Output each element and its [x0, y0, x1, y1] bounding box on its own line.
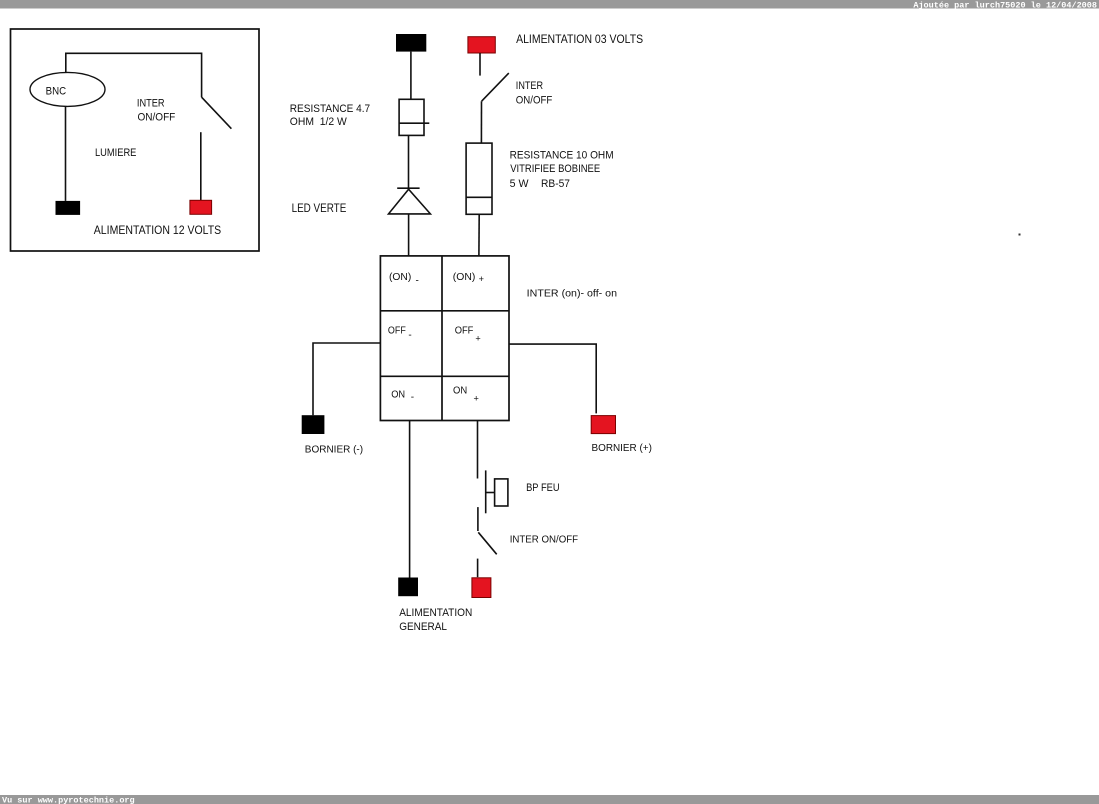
svg-text:OFF: OFF: [455, 325, 474, 336]
svg-text:5 W: 5 W: [510, 178, 529, 190]
svg-text:GENERAL: GENERAL: [399, 621, 447, 633]
svg-text:(ON): (ON): [389, 272, 411, 283]
svg-text:+: +: [474, 393, 479, 403]
footer bar: [0, 795, 1099, 804]
stray dot artifact: [1019, 234, 1021, 236]
svg-text:+: +: [475, 334, 480, 344]
wire resistor R2 to switch box: [478, 214, 480, 256]
LED cathode bar: [397, 187, 419, 189]
wire black terminal to resistor R1: [410, 52, 412, 100]
svg-text:Ajoutée par lurch75020 le 12/0: Ajoutée par lurch75020 le 12/04/2008: [913, 0, 1097, 10]
svg-text:ON: ON: [453, 385, 467, 396]
svg-text:ON/OFF: ON/OFF: [516, 94, 553, 106]
svg-text:INTER: INTER: [137, 98, 165, 110]
svg-text:RESISTANCE 4.7: RESISTANCE 4.7: [290, 103, 370, 115]
resistor R1 inner line: [399, 122, 429, 124]
svg-text:-: -: [416, 276, 419, 287]
wire inset right vertical to 12V terminal: [200, 132, 202, 200]
svg-text:ALIMENTATION 03 VOLTS: ALIMENTATION 03 VOLTS: [516, 34, 643, 46]
switch block divider vertical: [441, 256, 443, 421]
inter on/off switch blade (top right): [482, 73, 509, 101]
wire red terminal down: [479, 53, 481, 76]
svg-text:(ON): (ON): [453, 272, 476, 283]
terminal red 12V (inset): [190, 200, 212, 214]
svg-text:VITRIFIEE BOBINEE: VITRIFIEE BOBINEE: [510, 163, 600, 175]
switch block divider horizontal 1: [380, 310, 509, 312]
svg-text:ON/OFF: ON/OFF: [138, 112, 176, 124]
terminal black top: [396, 34, 426, 52]
wire switch to resistor R2: [480, 101, 482, 143]
svg-text:ALIMENTATION 12 VOLTS: ALIMENTATION 12 VOLTS: [94, 225, 222, 237]
resistor R2 10 ohm body: [466, 143, 492, 214]
switch block divider horizontal 2: [380, 375, 509, 377]
svg-text:RB-57: RB-57: [541, 178, 570, 190]
BP FEU button body: [495, 479, 508, 506]
svg-text:-: -: [408, 330, 411, 341]
svg-text:ON: ON: [391, 390, 405, 401]
switch block S1 outer frame: [380, 256, 509, 421]
svg-text:BORNIER (-): BORNIER (-): [305, 443, 363, 455]
BNC connector ellipse: [30, 72, 105, 106]
svg-text:ALIMENTATION: ALIMENTATION: [399, 607, 472, 619]
inter on/off switch blade (bottom): [478, 532, 496, 554]
terminal red top (03 volts): [468, 37, 495, 53]
svg-text:BNC: BNC: [46, 86, 67, 98]
wire inter switch to red terminal: [477, 559, 479, 578]
wire inset top horizontal: [66, 53, 202, 97]
inter on/off switch blade (inset): [202, 97, 232, 129]
wire OFF- to bornier minus: [313, 343, 380, 415]
svg-text:+: +: [479, 274, 484, 284]
terminal black alimentation general: [398, 578, 418, 597]
wire OFF+ to bornier plus: [509, 344, 596, 413]
wire BP FEU to inter switch: [477, 507, 479, 531]
BP FEU connector tick: [486, 492, 495, 494]
svg-text:INTER (on)- off- on: INTER (on)- off- on: [527, 289, 618, 300]
resistor R1 4.7 ohm body: [399, 99, 424, 135]
svg-text:LUMIERE: LUMIERE: [95, 147, 136, 159]
svg-text:LED VERTE: LED VERTE: [292, 203, 347, 215]
svg-text:OFF: OFF: [388, 325, 406, 336]
terminal red alimentation general: [472, 578, 491, 598]
wire BNC to black terminal: [65, 106, 67, 201]
inset box frame: [11, 29, 260, 251]
svg-text:OHM 1/2 W: OHM 1/2 W: [290, 116, 347, 128]
LED triangle: [389, 189, 431, 214]
svg-text:INTER: INTER: [516, 80, 543, 92]
svg-text:Vu sur www.pyrotechnie.org: Vu sur www.pyrotechnie.org: [2, 796, 135, 804]
wire resistor R1 to LED: [408, 135, 410, 188]
terminal black 12V (inset): [56, 201, 81, 215]
svg-text:INTER ON/OFF: INTER ON/OFF: [510, 535, 578, 546]
terminal black bornier (-): [302, 415, 325, 434]
wire ON+ down to BP FEU: [477, 421, 479, 479]
header bar: [0, 0, 1099, 9]
svg-text:BORNIER (+): BORNIER (+): [592, 442, 652, 454]
resistor R2 inner line: [466, 196, 492, 198]
svg-text:RESISTANCE 10 OHM: RESISTANCE 10 OHM: [510, 149, 614, 161]
terminal red bornier (+): [591, 416, 615, 434]
BP FEU actuator line: [485, 470, 487, 513]
svg-text:-: -: [411, 392, 414, 403]
wire LED to switch box: [408, 214, 410, 256]
wire ON- to alimentation general black: [409, 421, 411, 578]
svg-text:BP FEU: BP FEU: [526, 482, 560, 494]
